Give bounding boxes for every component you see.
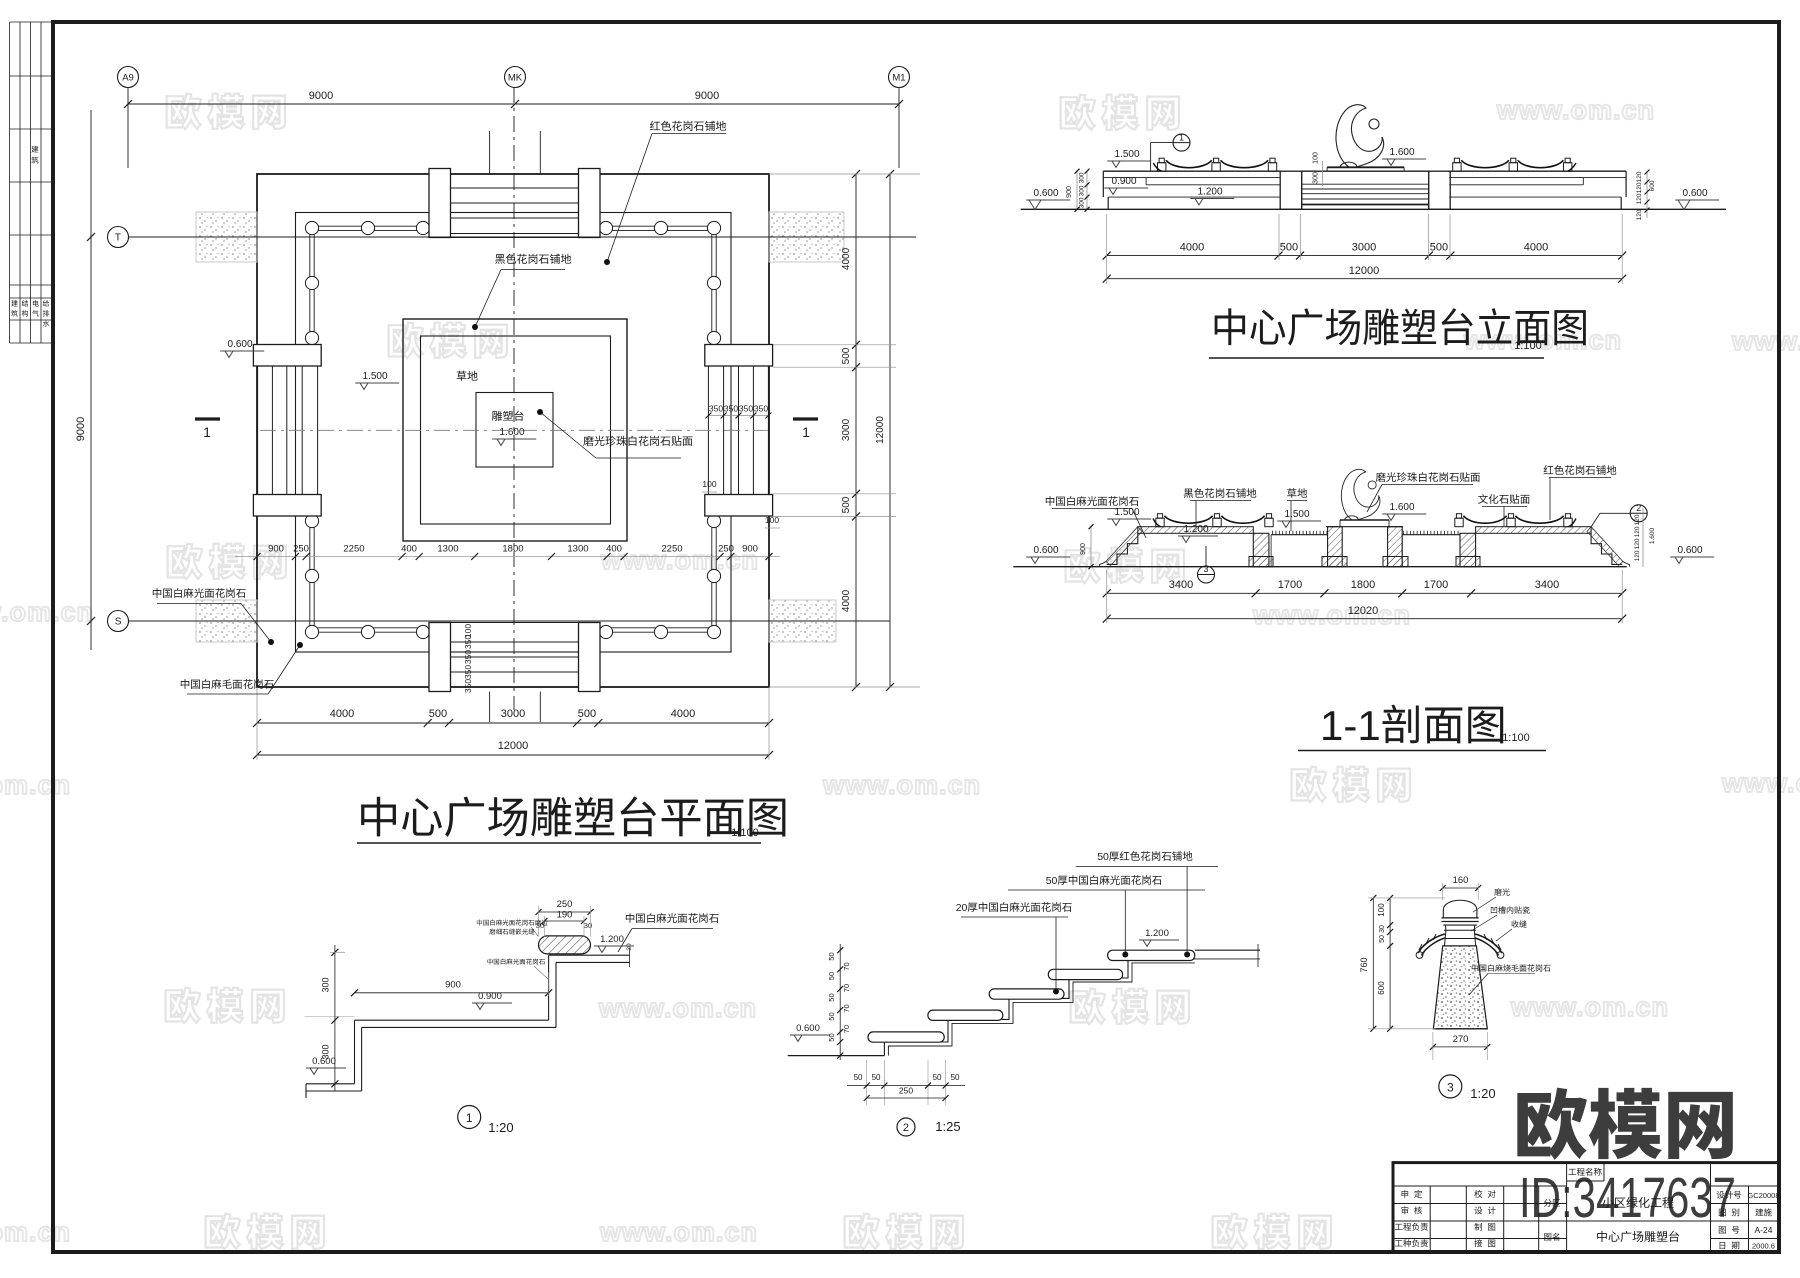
svg-text:500: 500 [841,496,852,513]
svg-text:12000: 12000 [1349,265,1380,277]
svg-text:350: 350 [754,404,768,414]
svg-text:300: 300 [1079,197,1086,208]
svg-text:1.500: 1.500 [363,371,388,382]
svg-text:50: 50 [827,993,836,1001]
svg-text:1-1: 1-1 [1320,702,1381,749]
svg-text:250: 250 [718,544,734,555]
svg-text:600: 600 [1377,981,1386,995]
svg-text:2000.6: 2000.6 [1752,1242,1775,1251]
svg-text:900: 900 [268,544,284,555]
svg-text:www.om.cn: www.om.cn [1252,600,1411,630]
svg-text:3400: 3400 [1535,579,1559,591]
svg-text:1800: 1800 [1351,579,1375,591]
svg-text:1:25: 1:25 [935,1119,960,1134]
svg-text:400: 400 [401,544,417,555]
svg-text:1: 1 [802,424,810,440]
svg-text:4000: 4000 [1180,242,1204,254]
svg-text:760: 760 [1359,957,1369,972]
svg-text:1300: 1300 [567,544,588,555]
svg-text:1:20: 1:20 [1470,1086,1495,1101]
svg-text:A-24: A-24 [1755,1225,1773,1235]
svg-text:350: 350 [463,665,473,679]
svg-text:20: 20 [956,902,968,914]
svg-text:160: 160 [1453,875,1469,886]
svg-text:www.om.cn: www.om.cn [0,1217,71,1247]
svg-text:www.om.cn: www.om.cn [1496,95,1655,125]
svg-text:2: 2 [903,1122,909,1134]
svg-text:50: 50 [854,1073,863,1082]
svg-text:250: 250 [557,899,573,910]
svg-text:www.om.cn: www.om.cn [0,597,94,627]
svg-text:50: 50 [933,1073,942,1082]
svg-text:50: 50 [827,972,836,980]
svg-text:350: 350 [724,404,738,414]
svg-text:GC20008: GC20008 [1747,1191,1779,1200]
svg-text:50: 50 [872,1073,881,1082]
svg-text:S: S [115,617,122,628]
svg-text:4000: 4000 [671,708,695,720]
svg-text:50: 50 [951,1073,960,1082]
svg-text:500: 500 [841,347,852,364]
svg-text:250: 250 [293,544,309,555]
svg-text:500: 500 [1430,242,1448,254]
svg-text:0.900: 0.900 [1112,176,1137,187]
svg-text:3000: 3000 [841,418,852,441]
svg-text:500: 500 [1280,242,1298,254]
svg-text:30: 30 [1379,925,1386,933]
svg-text:0.600: 0.600 [1678,545,1703,556]
svg-text:0.600: 0.600 [1034,188,1059,199]
svg-text:9000: 9000 [75,417,87,441]
svg-text:1.200: 1.200 [1145,928,1169,939]
svg-text:50: 50 [1379,935,1386,943]
svg-text:9000: 9000 [695,90,719,102]
svg-text:T: T [115,233,121,244]
svg-text:50: 50 [1046,875,1058,887]
svg-text:350: 350 [739,404,753,414]
svg-text:2250: 2250 [343,544,364,555]
svg-text:1300: 1300 [437,544,458,555]
svg-text:100: 100 [702,479,716,489]
svg-text:120: 120 [1634,550,1641,561]
svg-text:70: 70 [842,984,851,992]
svg-text:300: 300 [321,977,331,992]
svg-text:1.600: 1.600 [1390,502,1415,513]
svg-text:www.om.cn: www.om.cn [598,993,757,1023]
svg-text:www.om.cn: www.om.cn [822,770,981,800]
svg-text:1.200: 1.200 [600,934,624,945]
svg-text:0.600: 0.600 [796,1023,820,1034]
svg-text:300: 300 [1313,172,1320,184]
svg-text:120: 120 [1636,193,1643,204]
svg-text:270: 270 [1453,1034,1469,1045]
svg-text:1: 1 [466,1111,473,1125]
svg-text:1:100: 1:100 [731,827,759,839]
svg-text:100: 100 [1377,903,1386,917]
svg-text:MK: MK [508,73,523,84]
svg-text:1.600: 1.600 [500,427,525,438]
svg-text:1:20: 1:20 [488,1120,513,1135]
svg-text:1700: 1700 [1278,579,1302,591]
svg-text:4000: 4000 [1524,242,1548,254]
svg-text:1:100: 1:100 [1514,340,1542,352]
svg-text:2: 2 [1636,503,1641,513]
svg-text:300: 300 [1079,185,1086,196]
svg-text:900: 900 [445,980,461,991]
svg-text:12000: 12000 [875,416,886,444]
svg-text:0.900: 0.900 [478,991,502,1002]
svg-text:12020: 12020 [1348,605,1379,617]
svg-text:70: 70 [842,1004,851,1012]
svg-text:1: 1 [203,424,211,440]
svg-text:0.600: 0.600 [1683,188,1708,199]
svg-text:www.om.cn: www.om.cn [1510,992,1669,1022]
svg-text:www.om.cn: www.om.cn [0,770,71,800]
svg-text:4000: 4000 [841,247,852,270]
svg-text:1.600: 1.600 [1390,147,1415,158]
svg-text:900: 900 [1080,543,1087,555]
svg-text:70: 70 [842,962,851,970]
svg-text:1700: 1700 [1424,579,1448,591]
svg-text:250: 250 [899,1086,913,1096]
svg-text:4000: 4000 [330,708,354,720]
svg-text:600: 600 [1649,180,1656,191]
svg-text:1: 1 [1179,133,1184,143]
svg-text:1:100: 1:100 [1502,732,1530,744]
svg-text:900: 900 [742,544,758,555]
svg-text:0.600: 0.600 [228,339,253,350]
svg-text:4000: 4000 [841,589,852,612]
svg-text:12000: 12000 [498,740,529,752]
svg-text:www.om.cn: www.om.cn [1721,768,1800,798]
svg-text:500: 500 [578,708,596,720]
svg-text:50: 50 [1097,851,1109,863]
svg-text:3400: 3400 [1169,579,1193,591]
svg-text:9000: 9000 [309,90,333,102]
svg-text:3: 3 [1447,1080,1454,1094]
svg-text:50: 50 [827,1033,836,1041]
svg-text:120: 120 [1636,171,1643,182]
svg-text:0.600: 0.600 [1034,545,1059,556]
svg-text:0.600: 0.600 [312,1056,336,1067]
svg-text:ID:3417637: ID:3417637 [1519,1166,1736,1230]
svg-text:1800: 1800 [502,544,523,555]
svg-text:50: 50 [827,1012,836,1020]
svg-text:120: 120 [1634,526,1641,537]
svg-text:www.om.cn: www.om.cn [599,1217,758,1247]
svg-text:70: 70 [842,1025,851,1033]
svg-text:300: 300 [1079,172,1086,183]
svg-text:A9: A9 [122,73,134,84]
svg-text:100: 100 [1313,152,1320,164]
svg-text:120: 120 [1634,538,1641,549]
svg-text:30: 30 [536,921,544,930]
svg-text:1.500: 1.500 [1115,149,1140,160]
svg-text:350: 350 [463,679,473,693]
svg-text:500: 500 [429,708,447,720]
svg-text:30: 30 [584,921,592,930]
svg-text:900: 900 [1066,186,1073,198]
svg-text:50: 50 [827,952,836,960]
svg-text:350: 350 [463,635,473,649]
svg-text:350: 350 [709,404,723,414]
svg-text:3000: 3000 [501,708,525,720]
svg-text:1.200: 1.200 [1198,187,1223,198]
svg-text:www.om.cn: www.om.cn [1731,326,1800,356]
svg-text:350: 350 [463,650,473,664]
svg-text:M1: M1 [892,73,905,84]
svg-text:400: 400 [606,544,622,555]
svg-text:1.600: 1.600 [1649,527,1656,544]
svg-text:1.500: 1.500 [1285,509,1310,520]
svg-text:3000: 3000 [1352,242,1376,254]
svg-text:120: 120 [1636,182,1643,193]
svg-text:120: 120 [1634,514,1641,525]
svg-text:120: 120 [1636,209,1643,220]
svg-text:2250: 2250 [661,544,682,555]
svg-text:190: 190 [557,910,573,921]
